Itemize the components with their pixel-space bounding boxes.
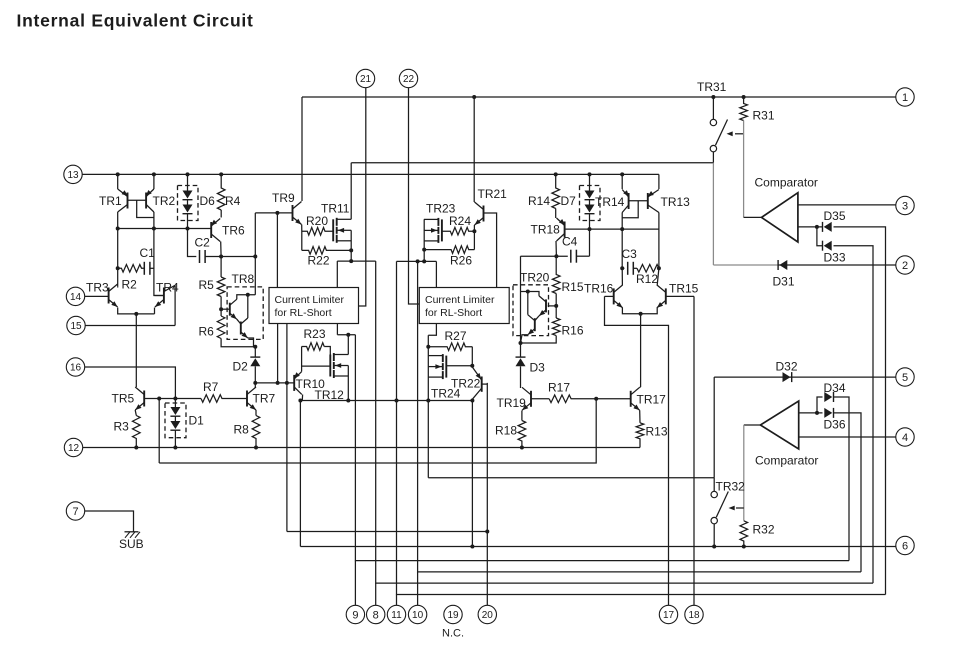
resistor R32 [740, 521, 748, 547]
svg-text:15: 15 [70, 321, 82, 332]
label R14 [528, 194, 550, 208]
wire TR6 collector [220, 242, 222, 278]
node TR20 base stub [554, 304, 558, 308]
label TR7 [253, 392, 276, 406]
resistor R26 [424, 246, 474, 254]
mosfet TR12 [330, 353, 348, 378]
label D2 [233, 360, 249, 374]
wire D7 bottom [589, 214, 591, 257]
transistor TR18 [557, 218, 566, 241]
wire comp2 input pin4 [799, 436, 896, 438]
svg-text:17: 17 [663, 610, 675, 621]
wire TR24 gate wire [446, 365, 472, 367]
pin 2 [896, 256, 914, 274]
wire TR20 T2 collector [527, 292, 529, 315]
wire TR4 collector riser [174, 285, 176, 325]
label R27 [445, 329, 467, 343]
node TR14 rail [620, 172, 624, 176]
svg-text:R22: R22 [308, 254, 330, 268]
wire TR9 collector [301, 97, 303, 201]
node pin20 bus [485, 530, 489, 534]
label TR8 [232, 272, 255, 286]
wire TR20 T1-T2 link [535, 316, 539, 321]
label C2 [195, 236, 211, 250]
svg-text:TR21: TR21 [478, 187, 508, 201]
svg-text:R20: R20 [306, 214, 328, 228]
node TR21 rail [472, 95, 476, 99]
label TR4 [156, 281, 179, 295]
pin 9 [346, 605, 364, 623]
svg-text:R14: R14 [528, 194, 550, 208]
transistor TR20 element 2 [528, 315, 535, 335]
diode D31 [778, 260, 787, 270]
label R18 [495, 424, 517, 438]
transistor TR19 [522, 387, 531, 410]
node TR8 collector [246, 293, 250, 297]
wire TR15 base [666, 295, 694, 297]
svg-text:TR6: TR6 [222, 224, 245, 238]
svg-text:TR16: TR16 [584, 282, 614, 296]
wire D6 bottom [187, 214, 189, 229]
wire TR3 emitter jog [118, 308, 155, 314]
diode D32 [783, 372, 792, 382]
wire TR8 T2 emitter out [248, 338, 254, 347]
wire TR8 base stub [221, 308, 230, 310]
wire TR1-TR2 base tie [128, 199, 147, 201]
ground SUB [125, 532, 141, 538]
diode D6 element 1 [183, 191, 193, 200]
wire rail B drop [712, 163, 714, 265]
wire TR11 source node [350, 230, 352, 261]
wire tail to TR17 [640, 314, 642, 387]
svg-text:D34: D34 [824, 381, 846, 395]
svg-text:D7: D7 [561, 194, 577, 208]
mosfet TR23 [424, 218, 442, 243]
wire R16 bottom jog [521, 336, 557, 343]
resistor R22 [302, 247, 351, 255]
wire pin2 line [778, 264, 896, 266]
transistor TR1 [118, 189, 128, 212]
wire D1 top lead [174, 399, 176, 408]
label TR12 [315, 388, 345, 402]
svg-text:TR11: TR11 [321, 202, 350, 216]
wire TR10 emitter node [301, 347, 303, 372]
node TR6 coll C2 [219, 255, 223, 259]
wire TR17 emitter to R13 [639, 410, 641, 423]
node TR9 base link [275, 211, 279, 215]
label R26 [450, 254, 472, 268]
label TR32 [716, 480, 746, 494]
wire pin 12 rail [83, 447, 640, 449]
wire R31 to comparator [743, 121, 745, 218]
resistor R14 [552, 174, 560, 208]
diode D2 [250, 357, 260, 366]
svg-text:R12: R12 [636, 272, 658, 286]
resistor R7 [201, 395, 247, 403]
svg-text:13: 13 [67, 170, 79, 181]
svg-text:R18: R18 [495, 424, 517, 438]
wire D1 bottom [174, 430, 176, 447]
wire TR23 source node [423, 219, 425, 261]
node TR17 base link [594, 397, 598, 401]
wire TR5 emitter to R3 [135, 410, 136, 416]
node comp2 jog [815, 411, 819, 415]
wire TR16 collector [621, 268, 623, 285]
wire pin11 net [397, 261, 886, 594]
wire TR16 base [605, 295, 614, 297]
label D6 [200, 194, 216, 208]
resistor R31 [740, 97, 748, 121]
wire pin16 lead [85, 367, 176, 399]
wire R27 right drop [471, 347, 473, 366]
svg-text:SUB: SUB [119, 537, 144, 551]
wire TR20 T2 emitter out [521, 335, 528, 343]
svg-text:D33: D33 [824, 251, 846, 265]
label R32 [753, 523, 775, 537]
pin 7 [66, 502, 84, 520]
wire output jog 2 [397, 260, 437, 262]
label TR20 [520, 271, 550, 285]
resistor R2 [118, 265, 144, 273]
label R15 [562, 280, 584, 294]
node R32 bottom [742, 545, 746, 549]
svg-text:C2: C2 [195, 236, 211, 250]
svg-text:Internal Equivalent Circuit: Internal Equivalent Circuit [17, 11, 254, 31]
svg-text:18: 18 [688, 610, 700, 621]
label TR22 [451, 377, 481, 391]
pin 17 [659, 605, 677, 623]
resistor R23 [302, 343, 325, 351]
svg-text:TR20: TR20 [520, 271, 550, 285]
diode D1 element 1 [170, 407, 180, 416]
node TR20 collector [526, 290, 530, 294]
wire pin2 line left [713, 264, 778, 266]
svg-text:R4: R4 [225, 194, 241, 208]
svg-text:D35: D35 [824, 209, 846, 223]
node R3 bottom [134, 446, 138, 450]
wire D6 chain [187, 200, 189, 205]
node TR10 base bus [253, 381, 257, 385]
svg-text:Current Limiter: Current Limiter [275, 294, 345, 306]
wire TR9 emitter [301, 225, 303, 251]
node D6 rail [186, 172, 190, 176]
wire TR14 collector [621, 213, 623, 269]
wire drive bus [300, 400, 472, 402]
wire C2 right [206, 256, 256, 258]
wire TR18 base bus [565, 228, 659, 230]
svg-text:16: 16 [70, 363, 82, 374]
label TR18 [531, 223, 561, 237]
wire C2 left riser [188, 229, 197, 257]
node D1 top [173, 397, 177, 401]
wire D34 to right [834, 397, 850, 561]
svg-text:Comparator: Comparator [755, 176, 818, 190]
label TR5 [112, 392, 135, 406]
wire TR13 emitter [658, 174, 660, 189]
node drive bus left [298, 399, 302, 403]
wire D35 to right [834, 227, 886, 595]
wire TR11 drain riser [350, 163, 352, 220]
gate arrow TR31 [727, 131, 744, 136]
wire TR21 base vertical link [520, 256, 522, 357]
node R2 left [116, 266, 120, 270]
wire comp1 jog [817, 227, 823, 246]
label R16 [562, 324, 584, 338]
svg-text:R27: R27 [445, 329, 467, 343]
node D2 top [253, 345, 257, 349]
node CL1 stub B [285, 381, 289, 385]
wire pin 21 drop [359, 88, 366, 306]
svg-text:R15: R15 [562, 280, 584, 294]
wire C3 to R12 [634, 267, 637, 269]
label TR3 [86, 281, 109, 295]
wire R4 to TR6 emitter [220, 210, 222, 218]
diode D6 element 2 [183, 205, 193, 214]
transistor TR21 [475, 202, 484, 225]
wire TR14 emitter [621, 174, 623, 189]
svg-text:R17: R17 [548, 381, 570, 395]
resistor R20 [302, 228, 333, 236]
transistor TR3 [109, 284, 118, 307]
svg-text:R16: R16 [562, 324, 584, 338]
wire D36 to right [834, 413, 862, 572]
node pair tail [639, 312, 643, 316]
wire pin8 stub [375, 583, 377, 605]
transistor TR8 element 1 [230, 299, 237, 319]
svg-text:R31: R31 [753, 109, 775, 123]
svg-text:D32: D32 [776, 360, 798, 374]
wire CL1 stub B (to pin 20 bus) [286, 324, 288, 532]
label D33 [824, 251, 846, 265]
resistor R17 [549, 395, 631, 403]
label R31 [753, 109, 775, 123]
wire output2 bus [428, 477, 714, 479]
transistor TR2 [146, 189, 154, 212]
wire TR19 base wire [531, 398, 549, 400]
svg-text:14: 14 [70, 292, 82, 303]
svg-text:D3: D3 [530, 361, 546, 375]
node base bus at D7 [588, 227, 592, 231]
node drive bus pin11 [395, 399, 399, 403]
wire TR12 gate wire [302, 365, 331, 367]
transistor TR15 [657, 285, 666, 308]
wire CL2 stub [428, 324, 436, 336]
node R12 right [657, 266, 661, 270]
resistor R12 [637, 265, 659, 273]
pin 5 [896, 368, 914, 386]
wire TR10 coll drop [299, 401, 301, 547]
wire TR13-TR14 base tie [629, 200, 648, 202]
node R27 left [426, 345, 430, 349]
resistor R3 [133, 416, 141, 448]
svg-text:TR1: TR1 [99, 194, 122, 208]
label TR31 [697, 80, 727, 94]
dashed box D6 [178, 186, 199, 221]
label TR1 [99, 194, 122, 208]
wire TR20 base stub [548, 305, 557, 307]
svg-text:R26: R26 [450, 254, 472, 268]
op-amp comparator 2 [760, 401, 798, 449]
wire TR22 coll drop [471, 401, 473, 547]
wire pin8 net [376, 261, 873, 583]
svg-text:9: 9 [352, 609, 358, 621]
wire TR16 base to pin17 [605, 296, 669, 605]
label C4 [562, 235, 578, 249]
svg-text:10: 10 [412, 610, 424, 621]
wire TR12 drain bus [337, 334, 355, 336]
label TR24 [431, 387, 461, 401]
wire tail down [135, 314, 137, 387]
wire pin15 lead [85, 325, 175, 327]
pin 14 [66, 287, 84, 305]
node TR24 column bus [426, 399, 430, 403]
wire TR24 column [427, 335, 429, 478]
diode D3 [516, 357, 526, 366]
node TR8 base stub [219, 307, 223, 311]
svg-text:11: 11 [391, 610, 402, 621]
diode D36 [824, 408, 833, 418]
resistor R5 [217, 277, 225, 297]
wire D1 chain [174, 416, 176, 421]
svg-text:TR3: TR3 [86, 281, 109, 295]
pin 10 [408, 605, 426, 623]
svg-text:for RL-Short: for RL-Short [275, 307, 332, 319]
svg-text:TR23: TR23 [426, 202, 456, 216]
pin 11 [387, 605, 405, 623]
resistor R18 [518, 421, 526, 448]
transistor TR22 [472, 367, 487, 399]
node R18 bottom [520, 446, 524, 450]
label R5 [199, 278, 215, 292]
title [17, 11, 254, 31]
capacitor C1 [144, 262, 150, 275]
node TR22 emitter [470, 364, 474, 368]
node TR22 coll drop [470, 545, 474, 549]
wire TR5 base down link [158, 399, 160, 464]
label N.C. [442, 628, 464, 640]
node R26 left [422, 248, 426, 252]
node C3 left [620, 266, 624, 270]
wire TR15 base to pin18 [693, 296, 695, 605]
label R22 [308, 254, 330, 268]
svg-text:R6: R6 [199, 325, 215, 339]
label TR14 [595, 195, 625, 209]
label D3 [530, 361, 546, 375]
transistor TR7 [247, 387, 256, 410]
svg-text:1: 1 [902, 92, 908, 104]
svg-text:TR2: TR2 [153, 194, 176, 208]
wire comp1 input pin3 [798, 204, 896, 206]
capacitor C4 [571, 250, 577, 263]
svg-text:TR15: TR15 [669, 282, 699, 296]
wire D33 to right [834, 246, 874, 583]
pin 19 (N.C.) [444, 605, 462, 623]
diode D35 [823, 222, 832, 232]
transistor TR10 [294, 371, 302, 394]
wire TR7 emitter to R8 [255, 410, 257, 416]
wire pin 22 drop [409, 88, 420, 304]
label C3 [622, 247, 638, 261]
label D7 [561, 194, 577, 208]
label R24 [449, 214, 471, 228]
label TR6 [222, 224, 245, 238]
wire comp2 input stub [799, 412, 823, 414]
label R3 [114, 420, 130, 434]
svg-text:TR7: TR7 [253, 392, 276, 406]
label TR13 [661, 195, 691, 209]
svg-text:2: 2 [902, 260, 908, 272]
svg-text:D36: D36 [824, 418, 846, 432]
wire pin20 drop [486, 383, 488, 605]
label D34 [824, 381, 846, 395]
svg-text:R3: R3 [114, 420, 130, 434]
wire base bus left [118, 228, 212, 230]
node jog2 source [422, 259, 426, 263]
wire TR10 collector [301, 395, 303, 401]
pin 18 [685, 605, 703, 623]
svg-text:D1: D1 [189, 414, 205, 428]
svg-text:R5: R5 [199, 278, 215, 292]
diode D7 element 1 [585, 191, 595, 200]
svg-text:6: 6 [902, 540, 908, 552]
node D7 rail [588, 172, 592, 176]
svg-text:R8: R8 [234, 423, 250, 437]
svg-text:7: 7 [72, 506, 78, 518]
wire TR13 collector [658, 213, 660, 269]
label Comparator 1 [755, 176, 818, 190]
wire pin20 bus [287, 531, 487, 533]
node TR2 emitter rail [152, 172, 156, 176]
svg-text:TR22: TR22 [451, 377, 481, 391]
node base bus at TR14 [620, 227, 624, 231]
wire base wire TR5-TR7 [144, 398, 201, 400]
node D1 bottom [173, 446, 177, 450]
node R24 right [472, 229, 476, 233]
wire R15-R16 node [555, 294, 557, 319]
svg-text:TR18: TR18 [531, 223, 561, 237]
wire pair emitters [622, 308, 657, 314]
diode D33 [823, 241, 832, 251]
node tail [134, 312, 138, 316]
diode D34 [824, 392, 833, 402]
resistor R15 [552, 256, 560, 293]
wire TR3 collector [117, 286, 119, 289]
wire CL1 sense link [276, 213, 278, 288]
mosfet TR11 [333, 218, 351, 243]
pin 20 [478, 605, 496, 623]
resistor R27 [428, 343, 472, 351]
wire D3 to TR19 [520, 366, 522, 388]
wire R14 to TR18 [555, 209, 557, 219]
svg-text:R7: R7 [203, 380, 219, 394]
svg-text:TR17: TR17 [637, 393, 667, 407]
wire TR21 base [484, 213, 497, 288]
svg-text:Comparator: Comparator [755, 454, 818, 468]
label R4 [225, 194, 241, 208]
svg-text:TR14: TR14 [595, 195, 625, 209]
wire C4 right [577, 255, 590, 257]
label TR16 [584, 282, 614, 296]
svg-text:19: 19 [447, 610, 459, 621]
pin 22 [399, 69, 417, 87]
wire TR4 emitter jog [154, 308, 156, 314]
pin 16 [66, 358, 84, 376]
wire top rail (pin 1) [302, 96, 896, 98]
svg-text:Current Limiter: Current Limiter [425, 294, 495, 306]
node R8 bottom [254, 446, 258, 450]
wire CL2 top stub [435, 261, 437, 287]
wire base tie bus [159, 399, 596, 463]
